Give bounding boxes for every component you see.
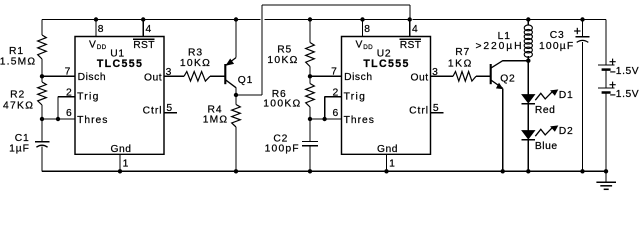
svg-text:1MΩ: 1MΩ (203, 115, 229, 126)
svg-text:Trig: Trig (77, 92, 100, 103)
svg-text:R5: R5 (277, 45, 292, 56)
svg-text:Blue: Blue (535, 141, 558, 152)
svg-text:100KΩ: 100KΩ (263, 98, 301, 109)
svg-text:R1: R1 (9, 46, 24, 57)
svg-text:8: 8 (364, 24, 371, 35)
svg-text:DD: DD (97, 44, 107, 51)
svg-text:1: 1 (389, 159, 396, 170)
svg-text:Q1: Q1 (238, 75, 253, 86)
svg-text:10KΩ: 10KΩ (180, 58, 211, 69)
svg-text:TLC555: TLC555 (97, 58, 143, 70)
svg-text:1.5V: 1.5V (616, 66, 639, 77)
svg-text:Thres: Thres (77, 115, 108, 126)
svg-text:Thres: Thres (344, 115, 375, 126)
svg-text:3: 3 (432, 67, 439, 78)
svg-text:Disch: Disch (344, 72, 373, 83)
svg-text:100µF: 100µF (539, 41, 574, 52)
svg-text:1: 1 (123, 159, 130, 170)
svg-text:TLC555: TLC555 (363, 58, 409, 70)
svg-text:D1: D1 (559, 90, 574, 101)
svg-text:3: 3 (166, 67, 173, 78)
svg-text:V: V (356, 39, 363, 50)
svg-text:5: 5 (433, 103, 440, 114)
svg-text:100pF: 100pF (265, 144, 300, 155)
svg-text:Out: Out (410, 73, 428, 84)
svg-text:RST: RST (133, 40, 155, 51)
svg-text:Gnd: Gnd (110, 144, 131, 155)
svg-text:6: 6 (332, 108, 339, 119)
svg-text:R3: R3 (188, 47, 203, 58)
svg-text:1KΩ: 1KΩ (448, 59, 473, 70)
svg-text:1.5MΩ: 1.5MΩ (0, 56, 36, 67)
svg-text:Ctrl: Ctrl (409, 105, 429, 116)
svg-text:Gnd: Gnd (377, 144, 398, 155)
svg-text:Red: Red (535, 105, 556, 116)
svg-text:5: 5 (166, 103, 173, 114)
svg-text:47KΩ: 47KΩ (3, 100, 34, 111)
svg-text:4: 4 (146, 24, 153, 35)
svg-text:R7: R7 (455, 47, 470, 58)
svg-text:1µF: 1µF (9, 143, 30, 154)
svg-text:8: 8 (98, 24, 105, 35)
svg-text:Disch: Disch (78, 72, 107, 83)
svg-text:6: 6 (66, 108, 73, 119)
svg-text:1.5V: 1.5V (616, 89, 639, 100)
svg-text:RST: RST (400, 40, 422, 51)
svg-text:Out: Out (144, 73, 162, 84)
svg-text:7: 7 (331, 66, 338, 77)
svg-text:7: 7 (65, 66, 72, 77)
svg-text:2: 2 (66, 87, 73, 98)
svg-text:2: 2 (332, 87, 339, 98)
svg-text:D2: D2 (559, 126, 574, 137)
svg-text:Q2: Q2 (500, 73, 515, 84)
svg-text:Ctrl: Ctrl (143, 105, 163, 116)
svg-text:>220µH: >220µH (476, 41, 524, 52)
svg-text:V: V (89, 39, 96, 50)
svg-text:DD: DD (363, 44, 373, 51)
svg-text:4: 4 (412, 24, 419, 35)
svg-text:10KΩ: 10KΩ (267, 55, 298, 66)
svg-text:C3: C3 (550, 30, 565, 41)
svg-text:R2: R2 (10, 90, 25, 101)
svg-text:Trig: Trig (344, 92, 367, 103)
